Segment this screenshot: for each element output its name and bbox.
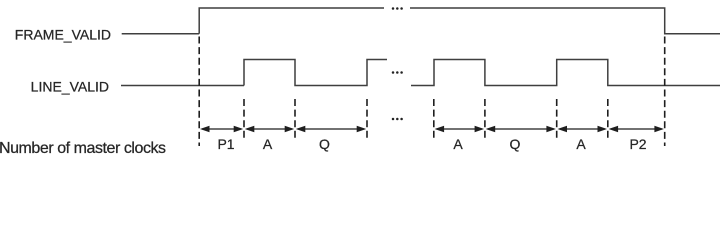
dashed marker line at line pulse1 rise x=244 xyxy=(243,99,245,141)
svg-text:P2: P2 xyxy=(629,136,646,152)
wire LINE_VALID lead-in low segment xyxy=(121,85,244,87)
svg-text:Number of master clocks: Number of master clocks xyxy=(0,140,166,157)
dimension arrow Q1 xyxy=(296,126,366,133)
dimension arrow Q2 xyxy=(486,126,556,133)
dimension arrow P1 xyxy=(200,126,243,133)
svg-text:A: A xyxy=(453,136,463,152)
svg-text:Q: Q xyxy=(510,136,521,152)
dimension arrow A2 xyxy=(435,126,485,133)
svg-text:P1: P1 xyxy=(217,136,234,152)
ellipsis break LINE_VALID xyxy=(392,71,403,74)
wire LINE_VALID resumed low, pulse 3, pulse 4, low tail xyxy=(411,60,720,86)
wire LINE_VALID pulse 1 and partial pulse 2 xyxy=(244,60,387,86)
dashed marker line at line pulse2 rise x=367 xyxy=(366,99,368,141)
dimension arrow A1 xyxy=(245,126,294,133)
dashed marker line at line pulse4 fall x=608 xyxy=(607,99,609,141)
svg-text:A: A xyxy=(576,136,586,152)
wire FRAME_VALID high segment right, falling edge, low tail xyxy=(410,8,720,34)
dashed marker line at frame rise x=199 xyxy=(198,37,200,147)
dashed marker line at line pulse3 fall x=485 xyxy=(484,99,486,141)
svg-text:Q: Q xyxy=(319,136,330,152)
svg-text:A: A xyxy=(263,136,273,152)
dashed marker line at frame fall x=665 xyxy=(664,37,666,147)
wire FRAME_VALID rising edge and high segment left xyxy=(199,8,384,34)
dimension arrow P2 xyxy=(609,126,664,133)
wire FRAME_VALID lead-in low segment xyxy=(122,33,200,35)
dashed marker line at line pulse4 rise x=557 xyxy=(556,99,558,141)
dimension arrow A3 xyxy=(558,126,608,133)
svg-text:FRAME_VALID: FRAME_VALID xyxy=(15,26,111,42)
dashed marker line at line pulse3 rise x=434 xyxy=(433,99,435,141)
ellipsis break FRAME_VALID high xyxy=(392,7,403,10)
dashed marker line at line pulse1 fall x=295 xyxy=(294,99,296,141)
ellipsis break dimension row xyxy=(392,118,403,121)
svg-text:LINE_VALID: LINE_VALID xyxy=(31,79,109,95)
